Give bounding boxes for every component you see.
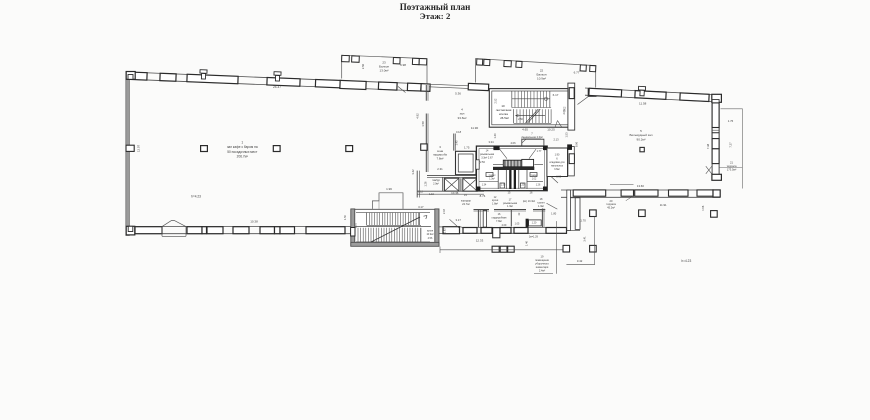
svg-text:(вч) 10.3м²: (вч) 10.3м² [523,200,535,203]
svg-text:1.76: 1.76 [728,119,734,123]
svg-text:6.77: 6.77 [574,71,580,75]
svg-text:3.42: 3.42 [411,169,415,175]
svg-text:2.10: 2.10 [354,222,358,228]
svg-text:1.53: 1.53 [564,132,568,138]
svg-text:(2.56: (2.56 [479,161,485,164]
svg-text:21: 21 [730,161,733,165]
svg-text:1.20: 1.20 [532,222,537,225]
svg-text:h=4.23: h=4.23 [191,195,201,199]
svg-text:1.05: 1.05 [515,223,520,226]
svg-text:6.17: 6.17 [553,93,559,97]
svg-text:13.0м²: 13.0м² [380,69,389,73]
svg-text:3.98: 3.98 [556,176,561,179]
svg-text:90.2м²: 90.2м² [637,138,646,142]
svg-text:1.33: 1.33 [501,185,506,187]
svg-text:2.31: 2.31 [437,167,443,171]
svg-text:1.75: 1.75 [464,146,470,150]
svg-text:1.40: 1.40 [493,133,497,139]
svg-text:1.96: 1.96 [386,187,392,191]
svg-text:22.7м²: 22.7м² [462,202,470,206]
svg-text:1в=1.29: 1в=1.29 [529,236,539,239]
svg-text:3.6м²: 3.6м² [554,168,560,171]
svg-text:3.34: 3.34 [488,140,494,144]
svg-text:1.80: 1.80 [551,212,557,216]
svg-text:2.03: 2.03 [443,208,446,213]
svg-text:3.42: 3.42 [577,259,583,263]
svg-text:4.06: 4.06 [510,141,516,145]
svg-text:2.50: 2.50 [361,63,365,69]
svg-text:коридор: коридор [461,200,471,203]
svg-text:1: 1 [241,140,243,144]
svg-text:24.37: 24.37 [273,85,281,89]
svg-text:Этаж: 2: Этаж: 2 [420,11,451,21]
svg-text:Бильярдный зал: Бильярдный зал [629,133,652,137]
svg-text:3.17: 3.17 [418,205,424,209]
svg-text:7.27: 7.27 [729,142,733,148]
svg-text:2.09: 2.09 [502,224,507,227]
svg-text:4.65: 4.65 [522,127,528,131]
svg-text:2.50: 2.50 [518,118,523,121]
svg-text:1.40: 1.40 [525,240,529,246]
svg-text:1.56: 1.56 [701,205,705,211]
svg-text:7.8м²: 7.8м² [496,220,502,223]
svg-text:2.0м²: 2.0м² [433,183,439,186]
svg-text:умывальная 2.0м²: умывальная 2.0м² [521,135,543,139]
svg-text:напольных: напольных [551,165,564,168]
svg-text:1.20: 1.20 [520,185,525,187]
svg-text:1.70: 1.70 [580,219,586,223]
svg-text:3.17: 3.17 [455,218,461,222]
svg-text:туалет: туалет [488,175,496,177]
svg-text:11.58: 11.58 [639,101,647,105]
svg-text:2.4м²: 2.4м² [539,269,545,273]
svg-text:уборочного: уборочного [535,262,549,266]
svg-text:33.6м²: 33.6м² [458,116,467,120]
svg-text:1.90: 1.90 [555,154,560,157]
svg-text:2.13: 2.13 [553,138,559,142]
svg-text:1.45: 1.45 [455,140,459,146]
svg-text:5.36: 5.36 [455,92,461,96]
svg-text:1.26: 1.26 [425,181,428,186]
svg-text:1.3м²: 1.3м² [538,205,544,208]
svg-text:6.98: 6.98 [400,63,406,67]
svg-text:7.38: 7.38 [706,143,710,149]
svg-text:3.3м² 2.67: 3.3м² 2.67 [481,157,493,160]
svg-text:12.33: 12.33 [476,239,484,243]
svg-text:10.38: 10.38 [250,220,258,224]
svg-text:1.50: 1.50 [344,214,347,219]
svg-text:1.3м²: 1.3м² [489,177,495,180]
svg-text:туалет: туалет [530,175,538,177]
svg-text:206.7м²: 206.7м² [237,155,248,159]
svg-text:26.5м²: 26.5м² [500,116,509,120]
svg-text:10.25: 10.25 [547,127,555,131]
svg-text:кладовая для: кладовая для [549,161,565,164]
svg-text:12.07: 12.07 [137,144,141,152]
svg-text:1.63: 1.63 [444,228,447,233]
svg-text:1.3м²: 1.3м² [507,205,513,208]
svg-text:зал кафе с баром на: зал кафе с баром на [227,145,258,149]
svg-text:2.52: 2.52 [495,98,498,103]
svg-text:45.2м²: 45.2м² [607,206,615,210]
svg-text:173.5м²: 173.5м² [727,168,737,172]
svg-text:10.9м²: 10.9м² [426,233,433,236]
svg-text:4.56: 4.56 [428,237,433,240]
svg-text:10.9м²: 10.9м² [537,77,546,81]
svg-text:8.74: 8.74 [480,194,486,198]
svg-text:0.18: 0.18 [456,130,462,134]
svg-text:1.02: 1.02 [532,178,537,180]
svg-text:8.06: 8.06 [575,141,579,147]
svg-text:1.8м²: 1.8м² [492,203,498,206]
svg-text:11.90: 11.90 [471,126,479,130]
svg-text:7.8м²: 7.8м² [437,156,444,160]
svg-text:1.58: 1.58 [421,121,425,127]
svg-text:3.41: 3.41 [583,236,587,242]
svg-text:13.60: 13.60 [637,184,644,188]
svg-text:1.34: 1.34 [482,185,487,187]
svg-text:11.91: 11.91 [660,203,667,207]
svg-text:50 посадочных мест: 50 посадочных мест [227,150,258,154]
svg-text:1.77: 1.77 [537,150,542,153]
svg-text:1.26: 1.26 [536,185,541,187]
svg-text:h=4.23: h=4.23 [681,259,691,263]
svg-text:4.92: 4.92 [415,113,419,119]
svg-text:2.03: 2.03 [562,109,566,115]
